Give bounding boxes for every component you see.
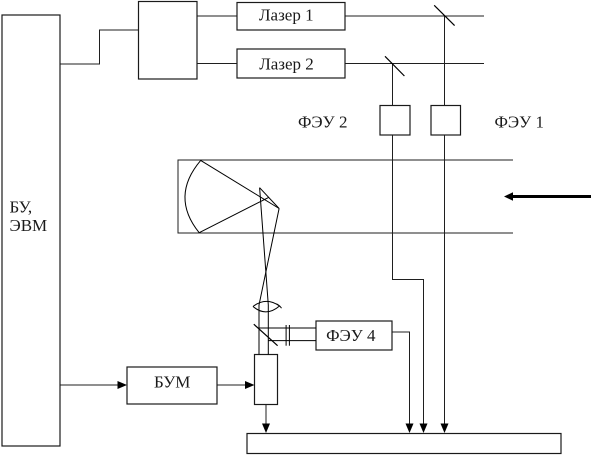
svg-text:БУМ: БУМ [154,373,190,392]
svg-text:Лазер 2: Лазер 2 [259,55,314,74]
svg-text:Лазер 1: Лазер 1 [259,6,314,25]
svg-text:БУ,: БУ, [10,198,33,217]
svg-text:ФЭУ 1: ФЭУ 1 [495,113,544,132]
svg-text:ФЭУ 2: ФЭУ 2 [298,113,347,132]
svg-text:ФЭУ 4: ФЭУ 4 [326,326,376,345]
svg-text:ЭВМ: ЭВМ [10,216,48,235]
